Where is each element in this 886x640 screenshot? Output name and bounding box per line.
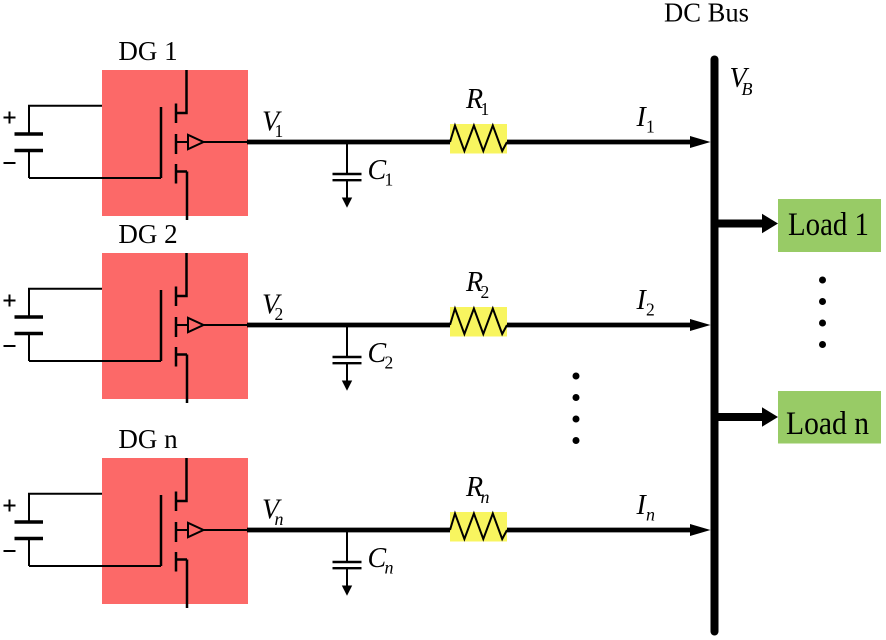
svg-text:Load 1: Load 1 (788, 207, 869, 243)
svg-text:DC Bus: DC Bus (664, 0, 749, 28)
svg-text:2: 2 (385, 353, 394, 373)
svg-text:Load n: Load n (786, 406, 869, 442)
svg-text:DG 1: DG 1 (118, 36, 177, 66)
svg-text:2: 2 (646, 300, 655, 320)
svg-text:n: n (275, 509, 284, 529)
svg-text:DG 2: DG 2 (118, 219, 177, 249)
svg-text:2: 2 (481, 282, 490, 302)
svg-text:1: 1 (385, 170, 394, 190)
svg-text:1: 1 (275, 121, 284, 141)
svg-text:n: n (385, 558, 394, 578)
svg-text:DG n: DG n (118, 424, 178, 454)
svg-text:1: 1 (646, 117, 655, 137)
svg-text:n: n (481, 487, 490, 507)
svg-text:B: B (742, 79, 753, 99)
svg-text:1: 1 (481, 99, 490, 119)
svg-text:2: 2 (275, 304, 284, 324)
svg-text:n: n (646, 505, 655, 525)
